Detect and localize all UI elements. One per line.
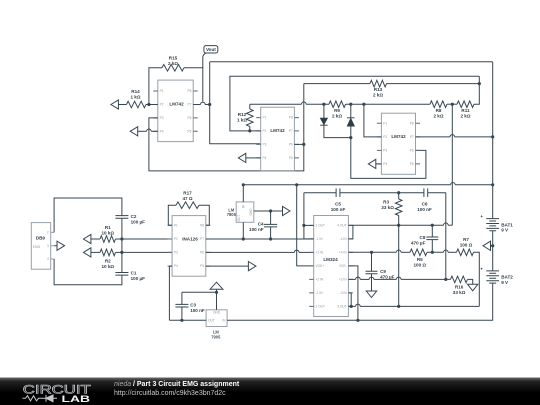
svg-text:P6: P6	[200, 251, 204, 255]
resistor R16	[451, 276, 473, 295]
svg-text:http://circuitlab.com/c9kh3e3b: http://circuitlab.com/c9kh3e3bn7d2c	[114, 390, 226, 397]
svg-text:1 OUT: 1 OUT	[316, 224, 325, 228]
svg-text:C4: C4	[258, 221, 264, 226]
resistor R14	[118, 89, 157, 108]
svg-text:R3: R3	[383, 200, 389, 205]
node VSS at rail	[356, 319, 359, 322]
svg-text:9 V: 9 V	[501, 228, 509, 233]
svg-text:2 kΩ: 2 kΩ	[168, 61, 178, 66]
flag at U3 P4	[368, 159, 381, 168]
node U7 GND at C3 rail	[215, 291, 218, 294]
node C3 bottom	[180, 319, 183, 322]
svg-text:7905: 7905	[211, 335, 221, 340]
node at R14/R15 junction	[147, 103, 150, 106]
svg-text:4: 4	[47, 257, 49, 261]
svg-text:P4: P4	[383, 162, 387, 166]
svg-text:R2: R2	[105, 258, 111, 263]
svg-text:C2: C2	[131, 214, 137, 219]
svg-text:R11: R11	[461, 108, 470, 113]
svg-text:1 kΩ: 1 kΩ	[237, 117, 247, 122]
regulator U5 LM7805	[227, 202, 254, 222]
wire R3 column down to 3OUT	[398, 225, 400, 306]
flag F1 (input net flag at R14)	[111, 100, 119, 109]
svg-text:3: 3	[47, 244, 49, 248]
svg-text:+2 IN: +2 IN	[316, 278, 324, 282]
svg-text:P7: P7	[200, 237, 204, 241]
net flag Vout	[203, 46, 218, 68]
node R1 at loop	[120, 237, 123, 240]
wire R2 to U4 P3	[122, 251, 172, 253]
svg-text:-1 IN: -1 IN	[316, 237, 324, 241]
wire feedback rail C	[230, 76, 479, 131]
svg-text:P6: P6	[289, 143, 293, 147]
svg-text:+1 IN: +1 IN	[316, 251, 324, 255]
node border at U3 out	[0, 0, 1, 1]
op-amp U3 LM742	[377, 113, 420, 174]
svg-text:C1: C1	[131, 271, 137, 276]
wire U1 P3 to U2 output	[149, 84, 304, 171]
wire U3 output to right border	[416, 135, 493, 137]
wire U1-out down to U2 P3	[210, 105, 261, 144]
svg-text:R13: R13	[374, 87, 383, 92]
node battery midpoint	[491, 244, 494, 247]
svg-text:2 kΩ: 2 kΩ	[433, 113, 443, 118]
svg-text:VDD+: VDD+	[316, 264, 325, 268]
svg-text:P5: P5	[410, 162, 414, 166]
svg-text:INA126: INA126	[182, 236, 198, 241]
svg-text:P2: P2	[174, 237, 178, 241]
wire U4 P6 to LM324 +1IN	[206, 250, 314, 252]
wire U5 OUT down	[242, 222, 244, 239]
diode D1	[320, 104, 351, 137]
wire mid rail	[243, 182, 492, 184]
svg-text:OUT: OUT	[208, 319, 215, 323]
svg-text:2 kΩ: 2 kΩ	[332, 113, 342, 118]
svg-text:P3: P3	[263, 143, 267, 147]
wire R9 to R8	[351, 103, 430, 105]
svg-text:R14: R14	[131, 89, 140, 94]
svg-text:7805: 7805	[227, 212, 237, 217]
svg-text:R9: R9	[334, 108, 340, 113]
ground flag above U7	[210, 282, 223, 289]
svg-text:R12: R12	[238, 112, 247, 117]
wire C5 line to 1OUT and -1IN	[304, 193, 314, 239]
node R2 at loop	[120, 251, 123, 254]
svg-text:R17: R17	[183, 191, 192, 196]
svg-text:10 kΩ: 10 kΩ	[101, 264, 114, 269]
svg-text:GND: GND	[249, 208, 253, 216]
flag at U1 P4	[130, 127, 158, 136]
svg-text:C5: C5	[335, 202, 341, 207]
wire R12 top to R9	[250, 102, 324, 104]
flag at U5 GND	[283, 206, 291, 215]
svg-text:LM742: LM742	[391, 134, 406, 139]
svg-text:+: +	[480, 267, 483, 272]
svg-text:R5: R5	[417, 257, 423, 262]
svg-text:P6: P6	[410, 149, 414, 153]
svg-text:100 nF: 100 nF	[417, 207, 432, 212]
svg-text:P7: P7	[289, 129, 293, 133]
svg-text:P7: P7	[187, 103, 191, 107]
flag at R1	[83, 234, 91, 243]
svg-text:LM742: LM742	[270, 128, 285, 133]
flag at U4 P5	[206, 262, 256, 271]
svg-text:P2: P2	[160, 103, 164, 107]
node C4 top	[269, 209, 272, 212]
svg-text:P1: P1	[160, 89, 164, 93]
svg-text:R15: R15	[169, 56, 178, 61]
wire U5 GND	[254, 210, 283, 212]
wire right border	[492, 62, 494, 219]
node 1OUT	[302, 224, 305, 227]
svg-text:C3: C3	[190, 302, 196, 307]
wire 4OUT	[348, 223, 452, 225]
wire C6 column down	[445, 193, 447, 280]
node mid rail at border	[491, 183, 494, 186]
svg-text:P3: P3	[160, 116, 164, 120]
wire D2 down to U3 P6	[351, 126, 426, 178]
svg-text:LM324: LM324	[323, 257, 338, 262]
wire +4IN / R5 / R7 line	[348, 249, 456, 256]
svg-text:100 µF: 100 µF	[131, 276, 146, 281]
wire C3 top rail	[182, 291, 217, 293]
svg-text:DB9: DB9	[36, 236, 46, 241]
svg-text:Vout: Vout	[206, 47, 216, 52]
svg-text:P2: P2	[383, 135, 387, 139]
svg-text:-4 IN: -4 IN	[340, 237, 348, 241]
regulator U7 LM7905	[206, 310, 227, 340]
wire -3IN loop	[348, 293, 351, 307]
node U3 P2 branch	[362, 103, 365, 106]
wire U2 P6 output	[294, 143, 303, 145]
svg-text:100 nF: 100 nF	[190, 308, 205, 313]
node R12 bottom	[248, 129, 251, 132]
wire U3 P2 to main wire	[364, 104, 382, 137]
resistor R3	[381, 193, 402, 226]
wire U4 P7 output	[206, 238, 314, 240]
capacitor C3	[175, 292, 205, 320]
node U5 OUT	[242, 237, 245, 240]
op-amp U1 LM742	[153, 80, 197, 142]
wire VDD+ branch	[297, 185, 314, 266]
svg-text:R7: R7	[463, 237, 469, 242]
resistor R11	[457, 76, 479, 118]
node R16 left	[444, 278, 447, 281]
svg-text:P4: P4	[160, 129, 164, 133]
svg-text:P2: P2	[263, 129, 267, 133]
flag at battery midpoint	[483, 241, 493, 250]
svg-text:1 kΩ: 1 kΩ	[130, 94, 140, 99]
capacitor C8	[411, 225, 438, 252]
svg-text:BAT1: BAT1	[501, 222, 513, 227]
svg-text:47 Ω: 47 Ω	[182, 196, 192, 201]
node C9 top	[370, 251, 373, 254]
svg-text:EMG: EMG	[33, 245, 41, 249]
svg-text:LAB: LAB	[62, 393, 91, 404]
svg-text:33 kΩ: 33 kΩ	[453, 290, 466, 295]
flag at DB9 pin 3	[54, 241, 64, 250]
wire U7 GND up	[216, 290, 218, 310]
svg-text:P7: P7	[410, 135, 414, 139]
svg-text:+: +	[480, 214, 483, 219]
svg-text:P5: P5	[187, 129, 191, 133]
svg-text:P1: P1	[263, 116, 267, 120]
node R9 left	[322, 103, 325, 106]
svg-text:R8: R8	[436, 108, 442, 113]
svg-text:/ Part 3 Circuit EMG assignmen: / Part 3 Circuit EMG assignment	[133, 381, 240, 388]
node U3 out at border	[491, 135, 494, 138]
resistor R17	[168, 191, 209, 226]
svg-text:C8: C8	[420, 235, 426, 240]
op-amp U2 LM742	[256, 107, 299, 171]
resistor R5 labels	[413, 257, 426, 268]
wire R1 to U4 P2	[122, 238, 172, 240]
svg-text:P4: P4	[263, 156, 267, 160]
footer url	[114, 390, 226, 397]
wire VSS- down to negative rail	[348, 266, 358, 320]
capacitor C1	[115, 271, 145, 282]
node R3 at 4OUT	[397, 224, 400, 227]
svg-text:P8: P8	[200, 223, 204, 227]
quad op-amp U6 LM324	[309, 216, 353, 317]
resistor R8	[430, 101, 457, 118]
resistor R9	[324, 101, 351, 118]
wire -4IN loop	[348, 225, 353, 239]
svg-text:P8: P8	[187, 89, 191, 93]
svg-text:nieda: nieda	[114, 381, 131, 388]
svg-text:P1: P1	[383, 121, 387, 125]
svg-text:P5: P5	[289, 156, 293, 160]
node R9 right	[349, 103, 352, 106]
CircuitLab logo	[23, 384, 91, 404]
in-amp U4 INA126	[168, 216, 211, 277]
battery BAT2	[480, 267, 513, 285]
resistor R7	[457, 237, 480, 307]
resistor R1	[91, 225, 122, 242]
svg-text:2 kΩ: 2 kΩ	[373, 93, 383, 98]
svg-text:R1: R1	[105, 225, 111, 230]
svg-text:4 OUT: 4 OUT	[337, 224, 346, 228]
capacitor C4	[249, 211, 277, 239]
wire BAT1 to mid node	[492, 231, 494, 246]
svg-text:-3 IN: -3 IN	[340, 291, 348, 295]
battery BAT1	[480, 214, 513, 232]
svg-text:470 µF: 470 µF	[380, 275, 395, 280]
svg-text:2 kΩ: 2 kΩ	[460, 113, 470, 118]
capacitor C9	[366, 252, 395, 291]
footer title	[114, 381, 240, 388]
svg-text:100 µF: 100 µF	[131, 219, 146, 224]
node C8 top	[431, 224, 434, 227]
diode D2	[347, 104, 354, 126]
svg-text:9 V: 9 V	[501, 280, 509, 285]
svg-text:P5: P5	[200, 264, 204, 268]
connector J1 DB9	[31, 223, 54, 270]
wire negative rail	[169, 283, 492, 320]
node U5 IN	[242, 183, 245, 186]
svg-text:P4: P4	[174, 264, 178, 268]
capacitor C5	[304, 188, 424, 212]
resistor R15	[149, 56, 203, 105]
svg-text:+4 IN: +4 IN	[339, 251, 347, 255]
svg-text:P8: P8	[289, 116, 293, 120]
resistor R12	[237, 104, 253, 131]
resistor R13	[304, 80, 480, 97]
svg-text:33 kΩ: 33 kΩ	[381, 205, 394, 210]
flag below R16	[468, 284, 478, 291]
ground below C9	[366, 291, 376, 298]
wire DB9 shield loop	[54, 198, 122, 285]
svg-text:R16: R16	[455, 285, 464, 290]
svg-text:OUT: OUT	[237, 215, 241, 222]
footer bar	[0, 378, 540, 405]
svg-text:100 nF: 100 nF	[331, 207, 346, 212]
node VDD branch	[295, 183, 298, 186]
wire U5 IN up to mid rail	[242, 185, 244, 202]
svg-text:100 Ω: 100 Ω	[413, 263, 426, 268]
svg-text:P8: P8	[410, 121, 414, 125]
svg-text:BAT2: BAT2	[501, 275, 513, 280]
flag at R2	[83, 248, 91, 257]
svg-text:C9: C9	[380, 269, 386, 274]
svg-text:P1: P1	[174, 223, 178, 227]
svg-text:C6: C6	[422, 202, 428, 207]
node diode pair bottom	[349, 136, 352, 139]
svg-text:100 nF: 100 nF	[249, 227, 264, 232]
svg-text:10 kΩ: 10 kΩ	[101, 231, 114, 236]
svg-text:100 Ω: 100 Ω	[460, 242, 473, 247]
svg-text:P6: P6	[187, 116, 191, 120]
node C4 bottom	[269, 237, 272, 240]
svg-text:P3: P3	[174, 251, 178, 255]
node U1 output	[208, 103, 211, 106]
node R3 top	[397, 191, 400, 194]
wire +3IN / R16 line	[348, 277, 450, 279]
resistor R2	[91, 249, 122, 269]
capacitor C6	[417, 188, 446, 212]
svg-text:470 µF: 470 µF	[411, 240, 426, 245]
wire U4 P4 down to negative rail	[169, 266, 172, 320]
svg-text:P3: P3	[383, 149, 387, 153]
svg-text:2 OUT: 2 OUT	[316, 305, 325, 309]
wire 3OUT	[348, 304, 479, 306]
capacitor C2	[115, 214, 145, 225]
svg-text:+3 IN: +3 IN	[339, 278, 347, 282]
node U2 P6 at column	[302, 143, 305, 146]
wire U1-out up to top rail	[209, 62, 211, 105]
svg-text:3 OUT: 3 OUT	[337, 305, 346, 309]
svg-text:VSS-: VSS-	[339, 264, 346, 268]
node -3IN at 3OUT	[350, 305, 353, 308]
node R3 at 3OUT	[397, 305, 400, 308]
svg-text:-2 IN: -2 IN	[316, 291, 324, 295]
wire 1OUT stub	[304, 224, 314, 226]
wire mid node to BAT2	[492, 246, 494, 271]
node line D right	[478, 82, 481, 85]
flag at U2 P4	[238, 153, 260, 162]
svg-text:2: 2	[47, 231, 49, 235]
wire R8/R11 node down to 4OUT	[451, 104, 453, 225]
node C8 bottom	[431, 251, 434, 254]
node R8/R11 junction	[451, 103, 454, 106]
wire U1 output	[193, 102, 210, 104]
svg-text:GND: GND	[213, 311, 221, 315]
wire top rail (Vout net)	[210, 61, 493, 63]
svg-text:LM742: LM742	[169, 102, 184, 107]
